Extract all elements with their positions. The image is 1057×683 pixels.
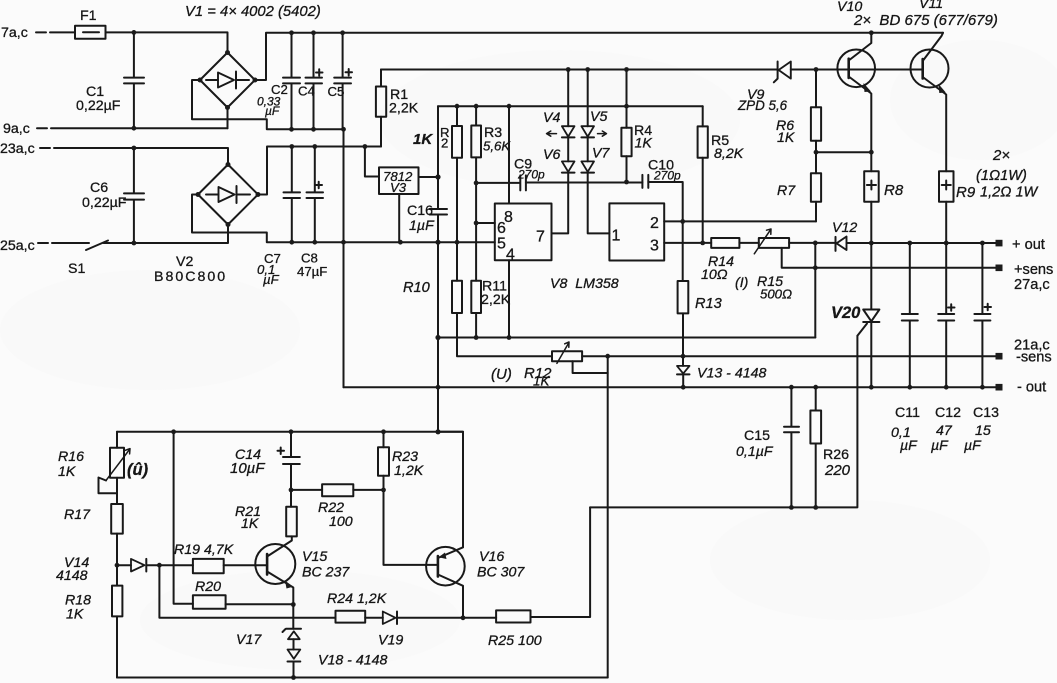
capacitor C11: [891, 243, 920, 454]
wire V19 to R25: [397, 617, 496, 619]
wire 7812 ground lead: [398, 194, 400, 242]
wire 23a,c to bridge V2 top: [54, 148, 228, 165]
svg-text:(I): (I): [735, 275, 748, 291]
svg-text:R17: R17: [64, 507, 91, 523]
resistor R13: [678, 281, 722, 356]
svg-text:1K: 1K: [635, 136, 653, 152]
svg-text:B80C800: B80C800: [154, 269, 227, 285]
node C1 top junction: [132, 30, 137, 35]
svg-text:V19: V19: [378, 633, 403, 649]
resistor R24: [327, 591, 387, 623]
svg-text:C5: C5: [328, 84, 345, 99]
node V14 left junction: [115, 563, 120, 568]
svg-text:+ out: + out: [1012, 237, 1045, 253]
resistor R18: [65, 565, 122, 677]
svg-text:R8: R8: [884, 182, 904, 199]
transistor V16: [426, 547, 525, 618]
wire pin2 line: [664, 220, 816, 222]
resistor R23: [378, 432, 424, 479]
potentiometer R16: [58, 432, 149, 493]
wire -sens drop to bottom rail: [607, 356, 609, 677]
resistor R11: [471, 279, 510, 338]
svg-text:R20: R20: [195, 579, 221, 595]
node +sens junction: [813, 265, 818, 270]
fuse F1: [75, 8, 106, 39]
svg-text:23a,c: 23a,c: [0, 141, 35, 157]
diode V17: [236, 629, 301, 650]
svg-text:R13: R13: [695, 296, 722, 312]
svg-text:(1Ω1W): (1Ω1W): [976, 168, 1027, 184]
terminal -sens: [996, 338, 1052, 366]
wire V16 emitter hook to lower rail: [438, 432, 463, 548]
svg-text:V1 = 4× 4002 (5402): V1 = 4× 4002 (5402): [185, 4, 321, 20]
svg-text:15: 15: [975, 423, 991, 439]
svg-text:0,1µF: 0,1µF: [736, 444, 774, 460]
op-amp V8b LM358: [609, 203, 664, 260]
capacitor C13: [964, 243, 999, 454]
node 23a,c: [0, 141, 50, 157]
svg-text:47µF: 47µF: [297, 264, 327, 279]
svg-text:2: 2: [650, 215, 659, 232]
node base rail dots: [566, 67, 571, 72]
svg-text:9a,c: 9a,c: [3, 121, 30, 137]
node emitter junction: [869, 150, 874, 155]
svg-text:1K: 1K: [241, 516, 259, 532]
svg-text:µF: µF: [931, 438, 949, 454]
wire R25 up to gate line: [531, 507, 591, 617]
svg-text:1,2K: 1,2K: [394, 463, 424, 479]
node C6 top junction: [132, 146, 137, 151]
svg-text:C4: C4: [298, 84, 315, 99]
diode V12: [832, 220, 857, 251]
node lower rail dots: [171, 429, 176, 434]
svg-text:270p: 270p: [517, 168, 545, 182]
capacitor C16: [407, 203, 447, 234]
svg-text:7a,c: 7a,c: [1, 25, 28, 41]
svg-text:V13 - 4148: V13 - 4148: [697, 366, 767, 382]
capacitor C1: [76, 32, 144, 128]
svg-text:V3: V3: [390, 180, 407, 195]
svg-text:V15: V15: [302, 549, 327, 565]
svg-text:V20: V20: [831, 304, 861, 322]
regulator U 7812 V3: [379, 167, 419, 195]
svg-text:R7: R7: [777, 183, 796, 199]
svg-text:1K: 1K: [58, 464, 76, 480]
node gate line dots: [789, 505, 794, 510]
svg-text:4148: 4148: [56, 568, 88, 584]
arrow left of V4: [547, 131, 557, 136]
svg-text:5: 5: [497, 236, 506, 253]
svg-text:V8 LM358: V8 LM358: [550, 276, 619, 292]
wire -out line: [344, 386, 996, 388]
wire 7812 output to 12V column: [419, 176, 439, 178]
svg-text:C11: C11: [895, 405, 920, 421]
svg-text:3: 3: [650, 238, 659, 255]
svg-text:2,2K: 2,2K: [481, 292, 511, 308]
node 12V rail dots: [455, 104, 460, 109]
svg-text:V16: V16: [479, 549, 504, 565]
wire V20 gate line: [590, 336, 857, 508]
wire feedback line: [438, 337, 815, 339]
svg-text:V17: V17: [236, 632, 262, 648]
svg-text:S1: S1: [68, 261, 85, 277]
node R6 top junction: [814, 67, 819, 72]
svg-text:1K: 1K: [66, 607, 84, 623]
svg-text:C15: C15: [744, 428, 770, 444]
terminal +sens: [996, 262, 1054, 293]
zener V9 ZPD5,6: [737, 62, 791, 114]
wire R15 to V12: [789, 242, 835, 244]
potentiometer R12: [491, 342, 582, 389]
thyristor V20: [831, 243, 879, 387]
svg-text:µF: µF: [964, 438, 982, 454]
wire S1 to bridge V2 bottom: [104, 225, 229, 244]
resistor R5: [698, 106, 744, 243]
svg-text:100: 100: [329, 514, 353, 530]
node -out dots: [436, 385, 441, 390]
wire bridge V1 bottom lead: [227, 108, 229, 129]
node R8 +out junction: [869, 241, 874, 246]
diode V13: [677, 356, 767, 387]
diode V14: [56, 555, 193, 584]
svg-text:- out: - out: [1017, 380, 1046, 396]
svg-text:6: 6: [497, 220, 506, 237]
svg-text:R25 100: R25 100: [488, 633, 542, 649]
wire R6 node to V10 emitter: [816, 151, 871, 153]
svg-text:8,2K: 8,2K: [714, 146, 744, 162]
transistor V10: [837, 0, 875, 171]
svg-text:2×: 2×: [992, 147, 1010, 164]
resistor R6: [776, 70, 821, 153]
bridge rectifier V1: [198, 50, 258, 110]
node 7a,c: [1, 25, 46, 41]
svg-text:C12: C12: [935, 405, 961, 421]
transistor V11: [911, 0, 949, 171]
svg-text:5,6K: 5,6K: [483, 139, 511, 154]
rail 12V horizontal: [438, 105, 703, 107]
svg-text:220: 220: [824, 462, 851, 479]
capacitor C15: [736, 387, 799, 507]
svg-text:+sens: +sens: [1014, 262, 1053, 278]
wire F1 to bridge V1 top: [106, 32, 228, 52]
resistor R3: [471, 106, 511, 281]
wire V15 emitter to V17: [292, 605, 294, 629]
wire bridge V1 plus riser and top DC+ rail: [255, 33, 943, 80]
wire pin4 column: [508, 260, 510, 337]
node R6 bottom junction: [814, 150, 819, 155]
resistor R8: [864, 171, 904, 243]
resistor R9: [939, 171, 976, 243]
svg-text:C16: C16: [407, 203, 433, 219]
svg-text:V4: V4: [543, 110, 560, 126]
wire V12 to +out: [847, 242, 996, 244]
terminal -out: [996, 380, 1047, 396]
node V15 emitter junction: [291, 602, 296, 607]
diode V7: [581, 146, 610, 173]
wire +sens drop and feedback riser: [814, 243, 816, 338]
node R21 top junction: [289, 488, 294, 493]
wire bridge V1 minus loop to DC- rail: [192, 80, 344, 129]
node R9 +out junction: [944, 241, 949, 246]
node DC- rail dots: [289, 127, 294, 132]
wire bridge V2 plus riser and aux DC+ rail: [258, 147, 381, 195]
wire bridge V2 minus loop to common rail: [192, 195, 495, 243]
node bottom rail V18 junction: [291, 675, 296, 680]
svg-text:10Ω: 10Ω: [701, 267, 728, 283]
label R8 R9 values: [976, 147, 1039, 201]
resistor R21: [235, 490, 297, 537]
svg-text:R9: R9: [956, 184, 976, 201]
resistor R1: [376, 70, 419, 147]
resistor R25: [488, 610, 542, 649]
node top rail dots: [289, 30, 294, 35]
svg-text:1K: 1K: [413, 131, 433, 148]
wire R20 to V15 emitter: [226, 603, 294, 605]
wire 12V column upper: [437, 106, 439, 208]
resistor R4: [621, 70, 652, 183]
svg-text:500Ω: 500Ω: [760, 287, 792, 302]
node C11 +out junction: [907, 241, 912, 246]
node common rail dots: [289, 240, 294, 245]
wire C10 to pin2 column: [648, 182, 682, 281]
node aux rail dots: [289, 144, 294, 149]
node feedback dots: [435, 335, 440, 340]
svg-text:ZPD 5,6: ZPD 5,6: [737, 98, 788, 113]
node V14 R19 junction: [157, 563, 162, 568]
capacitor C4: [298, 33, 323, 130]
wire 7812 input branch: [365, 147, 379, 177]
transistor V15: [255, 536, 350, 604]
svg-text:1K: 1K: [777, 130, 795, 146]
resistor R7: [777, 152, 821, 221]
wire R15 tap to +sens node: [782, 248, 816, 268]
node C6 bottom junction: [132, 241, 137, 246]
svg-text:R19 4,7K: R19 4,7K: [174, 542, 234, 558]
capacitor C6: [82, 148, 144, 243]
node 9a,c: [3, 121, 47, 137]
wire R10 bottom to R12: [457, 313, 552, 356]
svg-text:R24 1,2K: R24 1,2K: [327, 591, 387, 607]
diode V4: [543, 70, 575, 162]
wire C9 to C10: [526, 182, 643, 184]
svg-text:V12: V12: [832, 220, 857, 236]
capacitor C5: [328, 33, 353, 130]
svg-text:2× BD 675 (677/679): 2× BD 675 (677/679): [853, 12, 998, 29]
svg-text:1: 1: [612, 228, 621, 245]
resistor R10: [403, 280, 462, 313]
capacitor C7: [257, 147, 300, 288]
arrow right of V5: [598, 131, 607, 136]
resistor R20: [193, 579, 226, 609]
wire bottom rail: [117, 677, 608, 679]
wire 9a,c to bridge V1 bottom: [51, 127, 228, 129]
svg-text:V2: V2: [176, 254, 193, 270]
op-amp V8a LM358: [495, 204, 552, 264]
wire pin8 column: [508, 106, 510, 203]
node R4 bottom junction: [624, 180, 629, 185]
node C9 left junction: [474, 181, 479, 186]
svg-text:C6: C6: [90, 180, 108, 196]
wire 7a,c to F1: [50, 31, 75, 33]
svg-text:0,22µF: 0,22µF: [76, 98, 121, 114]
capacitor C9: [476, 157, 545, 191]
diode V18: [288, 650, 388, 678]
diode V6: [543, 147, 575, 173]
wire -sens line: [582, 355, 995, 357]
capacitor C12: [931, 243, 961, 454]
resistor R19: [174, 542, 234, 573]
capacitor C8: [297, 147, 327, 280]
svg-text:µF: µF: [900, 438, 918, 454]
node 7812 output junction: [435, 174, 440, 179]
diode V5: [581, 70, 607, 162]
svg-text:R26: R26: [823, 447, 849, 463]
svg-text:0,22µF: 0,22µF: [82, 195, 127, 211]
svg-text:BC 307: BC 307: [477, 565, 525, 581]
wire V9 to V10 V11 bases: [791, 69, 923, 71]
node pin2 C10 junction: [680, 219, 685, 224]
node pin3 R5 junction: [700, 241, 705, 246]
svg-text:R16: R16: [58, 449, 84, 465]
svg-text:27a,c: 27a,c: [1014, 277, 1050, 293]
svg-text:F1: F1: [80, 8, 97, 24]
svg-text:7: 7: [536, 229, 545, 246]
svg-text:-sens: -sens: [1016, 350, 1052, 366]
wire rail to R20: [174, 432, 193, 604]
wire 12V column lower through common rail to feedback line: [437, 215, 439, 432]
svg-text:µF: µF: [263, 272, 280, 287]
wire pin1 to V7: [588, 173, 610, 234]
node R22 R23 junction: [381, 488, 386, 493]
svg-text:270p: 270p: [653, 169, 681, 183]
svg-text:V7: V7: [592, 146, 610, 162]
resistor R26: [810, 387, 850, 507]
wire R19 to V15 base: [224, 564, 267, 566]
svg-text:V11: V11: [919, 0, 943, 12]
wire ground drop C5 to common rail to -out: [343, 129, 345, 387]
resistor R22: [291, 484, 384, 530]
wire pin7 to V6: [552, 173, 569, 234]
resistor R2: [413, 106, 462, 281]
svg-text:µF: µF: [265, 104, 280, 118]
node -sens dots: [605, 354, 610, 359]
capacitor C14: [230, 432, 300, 490]
node V12 anode junction: [813, 241, 818, 246]
wire R23 R22 to V16 base: [384, 476, 438, 565]
svg-text:25a,c: 25a,c: [0, 238, 35, 254]
svg-text:4: 4: [506, 247, 515, 264]
node V16 collector junction: [461, 615, 466, 620]
node C1 bottom junction: [132, 126, 137, 131]
potentiometer R15: [735, 229, 792, 302]
svg-text:1µF: 1µF: [409, 218, 435, 234]
wire R24 to V19: [365, 617, 383, 619]
svg-text:BC 237: BC 237: [302, 565, 350, 581]
bridge rectifier V2: [154, 162, 261, 285]
svg-text:2: 2: [441, 136, 448, 151]
resistor R17: [64, 478, 123, 565]
wire pin3 line: [664, 242, 711, 244]
svg-text:1,2Ω 1W: 1,2Ω 1W: [980, 185, 1039, 201]
node C13 +out junction: [980, 241, 985, 246]
terminal +out: [996, 237, 1045, 253]
svg-text:47: 47: [936, 423, 953, 439]
svg-text:V5: V5: [590, 109, 607, 125]
node 25a,c: [0, 238, 48, 254]
node pin6 junction: [474, 221, 479, 226]
resistor R14: [701, 238, 739, 283]
rail lower control top: [117, 431, 463, 433]
wire pin6: [476, 222, 495, 224]
svg-text:(û): (û): [127, 461, 149, 479]
switch S1: [52, 241, 108, 278]
svg-text:V6: V6: [543, 147, 560, 163]
wire V14 node to R24 row: [159, 565, 335, 618]
wire +sens line: [815, 267, 995, 269]
diode V19: [378, 612, 403, 649]
rail base-drive horizontal: [381, 69, 778, 71]
wire R14 to R15: [739, 242, 758, 244]
capacitor C10: [642, 158, 681, 188]
svg-text:R10: R10: [403, 280, 430, 296]
svg-text:10µF: 10µF: [230, 460, 265, 477]
svg-text:V18 - 4148: V18 - 4148: [318, 653, 388, 669]
svg-text:2,2K: 2,2K: [389, 101, 419, 117]
capacitor C2: [257, 33, 300, 130]
svg-text:(U): (U): [491, 366, 512, 383]
svg-text:C13: C13: [973, 405, 999, 421]
wire R12 wiper tap: [573, 361, 608, 373]
